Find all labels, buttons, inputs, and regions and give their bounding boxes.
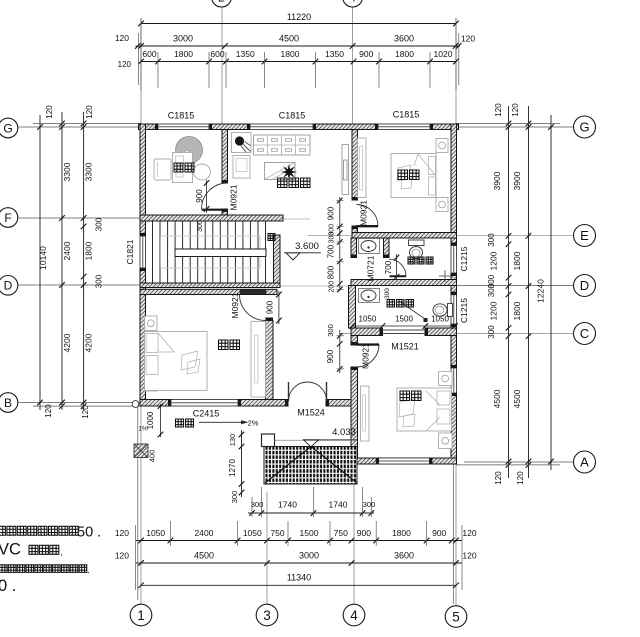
svg-text:120: 120: [115, 551, 129, 561]
room label bedroom SE: [400, 391, 410, 401]
svg-text:4: 4: [350, 608, 358, 623]
wall top G segment east: [430, 124, 459, 130]
room label bath1: [408, 257, 415, 264]
axis line 3 vertical: [266, 492, 268, 604]
top dim extension lines: [157, 52, 159, 88]
left dim line 10140: [39, 115, 41, 410]
svg-text:4.033: 4.033: [332, 427, 356, 438]
svg-text:1050: 1050: [243, 528, 262, 538]
svg-text:C: C: [580, 326, 589, 341]
axis circle D left: [0, 276, 18, 296]
svg-text:200: 200: [329, 281, 336, 293]
axis line B: [19, 402, 142, 404]
svg-text:900: 900: [195, 189, 204, 203]
wall bath2 west: [349, 286, 356, 329]
bedroom SW bed: [145, 332, 208, 391]
bath2 toilet: [448, 304, 453, 317]
wall bedroom SW east: [266, 321, 274, 400]
bath2 dim row 1050/1500/1050: [352, 325, 455, 327]
svg-text:900: 900: [326, 349, 335, 363]
svg-text:C1815: C1815: [393, 110, 420, 120]
svg-text:3900: 3900: [492, 171, 502, 190]
svg-text:120: 120: [462, 528, 476, 538]
svg-text:1050: 1050: [359, 315, 377, 324]
wall interior 4 upper: [352, 130, 358, 201]
door M1524 entrance double: [289, 382, 308, 401]
axis circle 4 top stub: [343, 0, 363, 7]
left dim extension stubs: [33, 122, 141, 124]
door M0921 study: [202, 183, 228, 209]
wall right seg1: [451, 124, 457, 246]
svg-text:1270: 1270: [228, 459, 237, 477]
bedroom NE wardrobe: [358, 138, 367, 198]
bedroom NE nightstand bottom: [436, 198, 448, 212]
svg-text:750: 750: [334, 528, 348, 538]
svg-text:1800: 1800: [174, 49, 193, 59]
axis line 2 vertical: [221, 5, 223, 124]
note line 3: [0, 565, 7, 573]
svg-text:C1821: C1821: [125, 239, 135, 264]
study round table: [176, 137, 203, 164]
wall bedroom SE west stub: [351, 336, 358, 346]
svg-text:4200: 4200: [84, 333, 94, 352]
door M0921 bedroom SW: [240, 295, 266, 321]
svg-text:1800: 1800: [392, 528, 411, 538]
svg-text:1800: 1800: [395, 49, 414, 59]
axis circle F left: [0, 208, 18, 228]
svg-text:4500: 4500: [279, 34, 299, 44]
window bedroom SE east: [451, 368, 457, 393]
svg-text:900: 900: [266, 300, 275, 314]
axis circle B left: [0, 393, 18, 413]
wall porch right: [351, 406, 358, 458]
svg-text:1800: 1800: [84, 241, 94, 260]
svg-text:C2415: C2415: [193, 409, 220, 419]
svg-text:800: 800: [327, 265, 336, 279]
svg-text:1: 1: [137, 608, 145, 623]
svg-text:900: 900: [432, 528, 446, 538]
axis circle 3 bottom: [256, 604, 278, 626]
svg-text:3.600: 3.600: [295, 241, 319, 252]
right dim detailed chain: [508, 106, 510, 478]
svg-text:300: 300: [487, 325, 496, 339]
svg-text:11220: 11220: [287, 12, 311, 22]
svg-text:900: 900: [327, 206, 336, 220]
bedroom SW nightstand top: [145, 316, 157, 331]
bottom dim row 4500/3000/3600: [136, 562, 463, 564]
svg-text:3000: 3000: [173, 34, 193, 44]
svg-text:PVC: PVC: [0, 541, 21, 559]
svg-text:300: 300: [487, 283, 496, 297]
bedroom SE nightstand top: [439, 372, 453, 386]
window C1815 no.1: [158, 124, 209, 130]
living sofa row: [254, 135, 311, 155]
svg-text:1350: 1350: [325, 49, 344, 59]
rain pipe circle: [132, 401, 139, 408]
top dimension row 3000/4500/3600: [136, 45, 461, 47]
svg-text:M0721: M0721: [366, 255, 376, 281]
door M0721 bathroom: [389, 259, 406, 276]
wall interior 4 stub: [352, 226, 358, 233]
room label bedroom SW: [219, 340, 229, 350]
svg-text:300: 300: [487, 233, 496, 247]
svg-text:C1215: C1215: [459, 298, 469, 323]
svg-text:130: 130: [228, 434, 237, 447]
wall B segment mid: [238, 400, 288, 407]
svg-text:120: 120: [85, 105, 94, 119]
living plant: [281, 164, 297, 180]
porch column: [262, 434, 275, 447]
svg-text:120: 120: [511, 103, 520, 117]
svg-text:1200: 1200: [489, 301, 499, 320]
wall A bottom: [351, 458, 457, 464]
right dim middle chain 3900/1800/1800/4500: [528, 106, 530, 478]
svg-text:4200: 4200: [62, 333, 72, 352]
room label corridor: [176, 419, 184, 427]
top dimension row 11220: [141, 23, 456, 25]
axis circle 2 top stub: [212, 0, 232, 7]
staircase outline: [161, 236, 261, 268]
svg-text:F: F: [4, 211, 11, 225]
axis circle G right: [574, 116, 596, 138]
svg-text:700: 700: [384, 260, 393, 274]
wall C segment west: [351, 328, 383, 336]
svg-text:3900: 3900: [512, 171, 522, 190]
window C1815 no.2: [250, 124, 313, 130]
svg-text:10140: 10140: [38, 246, 48, 270]
door M0921 living to bedroom NE: [357, 205, 379, 227]
window C1821: [140, 236, 146, 268]
svg-text:300: 300: [95, 274, 104, 288]
svg-text:1020: 1020: [434, 49, 453, 59]
wall left upper: [140, 124, 146, 236]
bath1 floor drain cross: [439, 275, 451, 277]
bedroom NE bed: [391, 154, 436, 198]
porch level mark 4.033 triangle: [304, 440, 319, 447]
svg-text:120: 120: [462, 551, 476, 561]
porch dim row: [248, 512, 374, 514]
staircase handrail: [175, 249, 266, 257]
window C1215 upper: [451, 246, 457, 274]
axis line A: [464, 461, 573, 463]
bedroom SE bed: [397, 388, 452, 431]
room label bedroom NE: [398, 170, 408, 180]
living corner table with plant: [232, 133, 252, 153]
svg-text:C1815: C1815: [168, 111, 195, 121]
axis line F: [19, 217, 142, 219]
window C1215 lower: [451, 295, 457, 324]
svg-text:D: D: [4, 279, 13, 293]
study door dim 900: [206, 180, 208, 213]
bedroom NE nightstand top: [436, 139, 448, 153]
svg-text:300: 300: [329, 232, 336, 244]
bath2 sink: [359, 289, 380, 303]
wall B segment east: [326, 400, 358, 407]
staircase treads: [153, 222, 266, 284]
svg-text:C1815: C1815: [279, 111, 306, 121]
wall interior 2 upper: [222, 130, 228, 184]
bedroom SW wardrobe: [251, 322, 266, 398]
svg-text:M0921: M0921: [361, 343, 371, 369]
window bottom bedroom SE: [379, 458, 430, 464]
svg-text:3600: 3600: [394, 551, 414, 561]
wall top G segment 2: [209, 124, 250, 130]
svg-text:3300: 3300: [62, 162, 72, 181]
svg-text:300: 300: [363, 500, 376, 509]
svg-text:1350: 1350: [236, 49, 255, 59]
svg-text:M1524: M1524: [297, 408, 325, 418]
svg-text:C1215: C1215: [459, 246, 469, 271]
wall top G segment west: [139, 124, 159, 130]
svg-text:D: D: [580, 278, 589, 293]
svg-text:300: 300: [326, 324, 335, 337]
bath1 sink: [359, 239, 380, 254]
svg-text:600: 600: [142, 49, 156, 59]
wall right seg2: [451, 273, 457, 295]
bath1 toilet: [409, 240, 425, 246]
axis circle D right: [574, 275, 596, 297]
svg-text:G: G: [3, 121, 12, 135]
axis line E: [308, 235, 573, 237]
svg-text:1050: 1050: [431, 315, 449, 324]
svg-text:M0921: M0921: [359, 200, 369, 226]
axis circle 1 bottom: [130, 604, 152, 626]
svg-text:1000: 1000: [146, 411, 155, 429]
study stool: [194, 164, 211, 180]
svg-text:4: 4: [349, 0, 356, 4]
svg-text:2: 2: [218, 0, 225, 4]
bottom dim row detailed: [136, 540, 463, 542]
axis circle A right: [574, 451, 596, 473]
svg-text:1800: 1800: [512, 301, 522, 320]
living TV stand: [342, 145, 349, 195]
porch steps grid: [264, 447, 357, 485]
rain drain hatched box: [134, 444, 148, 458]
bath door dim 700: [396, 254, 398, 280]
svg-text:2%: 2%: [248, 419, 259, 428]
svg-text:1740: 1740: [329, 500, 348, 510]
svg-text:120: 120: [118, 60, 132, 69]
study desk: [173, 153, 193, 183]
svg-text:300: 300: [384, 288, 391, 299]
svg-text:300: 300: [197, 220, 204, 232]
svg-text:120: 120: [45, 105, 54, 119]
bedroom SE door dim chain 300/900: [339, 330, 341, 373]
window C1815 no.3: [378, 124, 430, 130]
wall bath divider: [384, 238, 390, 258]
svg-text:12240: 12240: [536, 279, 546, 303]
svg-text:4500: 4500: [194, 551, 214, 561]
svg-text:120: 120: [461, 34, 475, 44]
hall vertical dim chain: [339, 197, 341, 291]
left dim line 3300/2400/4200: [61, 112, 63, 410]
wall right seg4: [451, 393, 457, 464]
svg-text:120: 120: [494, 103, 503, 117]
room label living: [278, 178, 288, 188]
axis line 4 vertical: [352, 5, 354, 124]
svg-text:1800: 1800: [281, 49, 300, 59]
svg-text:1200: 1200: [489, 251, 499, 270]
svg-text:A: A: [580, 455, 589, 470]
bottom dim extension lines: [137, 406, 139, 600]
svg-text:400: 400: [148, 450, 157, 463]
axis line D: [19, 284, 142, 286]
svg-text:1800: 1800: [512, 251, 522, 270]
svg-text:1500: 1500: [300, 528, 319, 538]
svg-text:120: 120: [115, 528, 129, 538]
svg-text:E: E: [580, 228, 589, 243]
wall E: [352, 233, 457, 239]
svg-text:120: 120: [516, 471, 525, 485]
porch left dim chain 130/1270/300: [241, 430, 243, 497]
room label bath2: [387, 300, 395, 308]
wall right seg3: [451, 324, 457, 368]
axis circle C right: [574, 323, 596, 345]
wall C segment east: [425, 328, 457, 336]
bedroom SW nightstand bottom: [145, 377, 157, 391]
porch tent slope lines: [265, 447, 357, 484]
room label study: [174, 163, 183, 172]
note line 1: [0, 526, 5, 535]
wall stair east: [274, 235, 281, 283]
svg-text:120: 120: [115, 33, 129, 43]
svg-text:M0921: M0921: [229, 184, 239, 210]
wall D east: [351, 280, 457, 286]
bath2 floor drain leader: [399, 301, 425, 319]
svg-text:900: 900: [357, 528, 371, 538]
svg-text:B: B: [4, 396, 12, 410]
svg-text:3300: 3300: [84, 162, 94, 181]
svg-text:0 .: 0 .: [0, 577, 16, 595]
axis line 5 vertical: [455, 18, 457, 606]
svg-text:G: G: [579, 120, 589, 135]
svg-text:4500: 4500: [512, 389, 522, 408]
svg-text:120: 120: [81, 405, 90, 419]
wall jamb caps: [155, 124, 158, 130]
svg-text:4500: 4500: [492, 389, 502, 408]
stair down label: [268, 234, 275, 241]
left dim line 3300/300/1800/300/4200: [83, 112, 85, 410]
svg-text:M0921: M0921: [230, 292, 240, 318]
svg-text:2400: 2400: [195, 528, 214, 538]
svg-text:1740: 1740: [278, 500, 297, 510]
svg-text:120: 120: [494, 471, 503, 485]
svg-text:M1521: M1521: [391, 342, 419, 352]
wall top G segment 3: [313, 124, 378, 130]
svg-text:600: 600: [210, 49, 224, 59]
axis line G: [19, 126, 142, 128]
svg-text:11340: 11340: [287, 573, 311, 583]
top dimension row 600/1800/600/1350/1800/1350/900/1800/1020: [141, 61, 456, 63]
corridor dim 1000: [160, 404, 162, 437]
porch platform edge: [264, 439, 357, 441]
svg-text:2400: 2400: [62, 241, 72, 260]
door M0921 bedroom SE: [357, 345, 380, 368]
axis circle 5 bottom: [445, 606, 467, 628]
svg-text:1500: 1500: [395, 315, 413, 324]
svg-text:3000: 3000: [299, 551, 319, 561]
svg-text:3: 3: [263, 608, 271, 623]
window C2415: [171, 400, 238, 407]
wall F: [140, 215, 283, 221]
living coffee table: [265, 163, 296, 180]
svg-text:700: 700: [327, 244, 336, 258]
wall lobby west: [351, 238, 357, 258]
right dim overall 12240: [550, 115, 552, 470]
right dim extension stubs: [457, 122, 561, 124]
svg-text:900: 900: [359, 49, 373, 59]
axis circle E right: [574, 225, 596, 247]
axis line C: [340, 333, 573, 335]
svg-text:5: 5: [452, 609, 460, 624]
svg-text:.: .: [87, 565, 90, 576]
bedroom SE nightstand bottom: [439, 433, 453, 449]
bottom dim row 11340: [141, 584, 456, 586]
wall interior 2 stub: [222, 209, 228, 215]
svg-text:.: .: [60, 547, 63, 559]
wall bedroom SE west: [351, 367, 358, 458]
wall D west band1: [140, 283, 280, 288]
svg-text:750: 750: [270, 528, 284, 538]
axis line 1 vertical: [140, 18, 142, 604]
svg-text:3600: 3600: [394, 34, 414, 44]
svg-text:300: 300: [95, 217, 104, 231]
wall B segment west: [140, 400, 171, 407]
axis circle 4 bottom: [343, 604, 365, 626]
living armchair: [233, 156, 250, 179]
svg-text:50 .: 50 .: [77, 525, 101, 541]
corridor slope arrow 2%: [199, 421, 242, 423]
axis circle G left: [0, 118, 18, 138]
svg-text:1050: 1050: [146, 528, 165, 538]
study chair left: [154, 159, 171, 180]
wall left lower: [140, 268, 146, 406]
bedroom SW door dim 900: [278, 291, 280, 324]
door M1521 sliding: [383, 329, 426, 331]
bedroom SE dresser: [361, 386, 370, 441]
svg-text:300: 300: [230, 491, 239, 504]
wall D west band2: [140, 289, 277, 294]
